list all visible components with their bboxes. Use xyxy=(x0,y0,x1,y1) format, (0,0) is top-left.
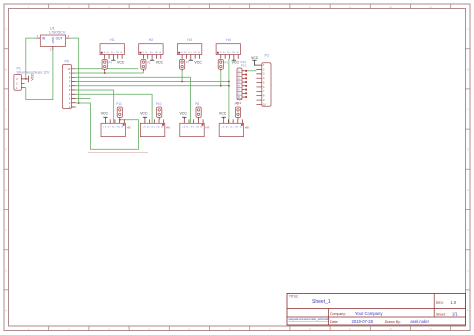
svg-text:+5 D- D+ ID G: +5 D- D+ ID G xyxy=(143,127,163,129)
svg-text:C: C xyxy=(5,108,7,112)
svg-text:+5 D- D+ ID G: +5 D- D+ ID G xyxy=(102,52,122,54)
wire U1 OUT down to P9 pin2 net xyxy=(70,38,79,103)
wire bus B5 from P9.6 xyxy=(76,85,229,87)
svg-text:P2: P2 xyxy=(224,60,228,64)
wire U1 GND to P1.1 xyxy=(26,50,53,99)
svg-text:H: H xyxy=(5,309,7,313)
node VCC junction at P1 pin 3 xyxy=(25,78,27,80)
wire P1.3 to U1 IN xyxy=(26,38,37,79)
P10 bottom stub xyxy=(158,117,160,119)
svg-text:L7805CV: L7805CV xyxy=(49,30,66,35)
wire H2 connector tap xyxy=(142,71,144,73)
svg-text:1.0: 1.0 xyxy=(451,300,457,305)
svg-text:Your Company: Your Company xyxy=(355,311,383,316)
svg-text:VCC: VCC xyxy=(232,61,240,65)
wire bus B8 from P9.3 xyxy=(76,98,91,100)
junction H4 tap xyxy=(220,85,222,87)
power symbol VCC above H6 xyxy=(143,117,147,119)
P7 bottom stub xyxy=(181,69,183,71)
svg-text:F: F xyxy=(467,228,469,232)
connector P7 (2-pin) under H3 xyxy=(180,60,190,70)
P13 pin 6 xyxy=(237,90,241,92)
junction P11 to P9.2 wire xyxy=(119,119,121,121)
power symbol VCC under H3 xyxy=(189,59,193,61)
svg-text:Drawn By:: Drawn By: xyxy=(385,320,401,324)
svg-text:Company:: Company: xyxy=(330,312,346,316)
header H4 xyxy=(216,38,240,54)
connector P4 (2-pin) under H1 xyxy=(102,60,112,70)
header H5 xyxy=(101,123,131,136)
P5 bottom stub xyxy=(142,69,144,71)
P4 bottom stub xyxy=(104,69,106,71)
svg-text:easyeda.com/axel.ruder_schemat: easyeda.com/axel.ruder_schematic xyxy=(289,317,331,321)
svg-text:TITLE:: TITLE: xyxy=(289,294,299,298)
junction H1 tap xyxy=(104,72,106,74)
wire ghost (faint) xyxy=(88,151,148,153)
wire H4 pin3 down to H8 xyxy=(228,59,230,124)
power symbol VCC under H4 xyxy=(232,59,236,61)
header H6 xyxy=(140,123,170,136)
P13 pin 8 xyxy=(237,98,241,100)
wire P9.2 to P11 (bottom loop) xyxy=(76,103,139,149)
U1 pin 2 GND stub xyxy=(52,46,54,50)
power symbol VCC (rotated) at P1 xyxy=(26,76,29,83)
H1 pin stubs xyxy=(105,55,122,59)
svg-text:Sheet_1: Sheet_1 xyxy=(312,299,331,305)
wire bus B3 from P9.8 to H7 xyxy=(76,77,191,123)
svg-text:B: B xyxy=(5,67,7,71)
svg-text:P10: P10 xyxy=(156,102,162,106)
P13 pin 1 xyxy=(237,72,241,74)
power symbol VCC above H5 xyxy=(103,117,107,119)
svg-text:P12: P12 xyxy=(241,64,247,68)
power symbol VCC above H8 xyxy=(222,117,226,119)
svg-text:axel.ruder: axel.ruder xyxy=(410,319,429,324)
title block xyxy=(287,293,466,325)
P8 bottom stub xyxy=(198,117,200,119)
svg-text:+5 D- D+ ID G: +5 D- D+ ID G xyxy=(180,52,200,54)
svg-text:VCC: VCC xyxy=(194,61,202,65)
svg-text:P9: P9 xyxy=(65,60,69,64)
voltage regulator U1 L7805CV xyxy=(40,25,66,46)
svg-text:2019-07-28: 2019-07-28 xyxy=(352,319,374,324)
svg-text:Date:: Date: xyxy=(330,320,338,324)
power symbol VCC under H2 xyxy=(150,59,154,61)
U1 pin 3 OUT stub xyxy=(66,37,70,39)
svg-text:GND: GND xyxy=(51,36,55,44)
header H1 xyxy=(100,38,124,54)
wire P13.1 to P3 xyxy=(247,70,256,72)
H6 pin stubs xyxy=(145,119,164,123)
H3 pin stubs xyxy=(182,55,199,59)
svg-text:F: F xyxy=(5,228,7,232)
svg-text:H1: H1 xyxy=(110,38,115,42)
svg-text:VCC: VCC xyxy=(140,112,148,116)
svg-text:B: B xyxy=(467,67,469,71)
connector P3 (10-pin) xyxy=(262,54,271,107)
svg-text:H: H xyxy=(467,309,469,313)
power symbol VCC at P3.1 xyxy=(252,60,256,65)
P13 pin 3 xyxy=(237,79,241,81)
svg-text:P8: P8 xyxy=(195,102,199,106)
wire H4 connector tap xyxy=(220,71,222,85)
P9 pin stubs xyxy=(72,69,76,107)
svg-text:+5 D- D+ ID G: +5 D- D+ ID G xyxy=(218,52,238,54)
connector P13 (8-pin with pads) xyxy=(237,60,247,100)
svg-text:H6: H6 xyxy=(166,125,170,129)
svg-text:+5 D- D+ ID G: +5 D- D+ ID G xyxy=(221,127,241,129)
svg-text:10: 10 xyxy=(389,327,393,331)
connector P11 (2-pin) above H5 xyxy=(116,102,122,117)
svg-text:OUT: OUT xyxy=(56,37,63,41)
svg-text:D: D xyxy=(5,148,7,152)
svg-text:VCC: VCC xyxy=(117,61,125,65)
header H7 xyxy=(180,123,210,136)
connector P9 (10-pin) xyxy=(62,60,71,109)
svg-text:G: G xyxy=(467,268,469,272)
svg-text:P4: P4 xyxy=(108,60,112,64)
svg-text:REV:: REV: xyxy=(436,301,444,305)
connector P1 Stromanschluss 12V xyxy=(14,66,50,90)
svg-text:VCC: VCC xyxy=(180,112,188,116)
P13 pin 4 xyxy=(237,83,241,85)
svg-text:P3: P3 xyxy=(265,54,269,58)
power symbol VCC under H1 xyxy=(111,59,115,61)
svg-text:VCC: VCC xyxy=(156,61,164,65)
svg-text:E: E xyxy=(467,188,469,192)
svg-text:VCC: VCC xyxy=(101,112,109,116)
wire bus B7 from P9.4 to H6 xyxy=(76,94,152,123)
wire H1 connector tap xyxy=(104,71,106,73)
wire bus B6 from P9.5 to H5 xyxy=(76,90,114,123)
H8 pin stubs xyxy=(224,119,243,123)
svg-text:11: 11 xyxy=(429,5,432,9)
svg-text:10: 10 xyxy=(389,5,393,9)
svg-text:A: A xyxy=(467,27,469,31)
H5 pin stubs xyxy=(106,119,125,123)
svg-text:H2: H2 xyxy=(149,38,154,42)
svg-text:1/1: 1/1 xyxy=(452,311,458,316)
P11 bottom stub xyxy=(119,117,121,119)
svg-text:+5 D- D+ ID G: +5 D- D+ ID G xyxy=(141,52,161,54)
connector P2 (2-pin) under H4 xyxy=(218,60,228,70)
svg-text:+5 D- D+ ID G: +5 D- D+ ID G xyxy=(103,127,123,129)
svg-text:VCC: VCC xyxy=(219,112,227,116)
svg-text:H7: H7 xyxy=(205,125,209,129)
P13 pin 5 xyxy=(237,87,241,89)
svg-text:P11: P11 xyxy=(116,102,122,106)
header H8 xyxy=(219,123,249,136)
power symbol VCC above H7 xyxy=(182,117,186,119)
H4 pin stubs xyxy=(221,55,238,59)
U1 pin 1 IN stub xyxy=(36,37,40,39)
H7 pin stubs xyxy=(184,119,203,123)
svg-text:P7: P7 xyxy=(186,60,190,64)
junction H3 tap xyxy=(181,81,183,83)
svg-text:A: A xyxy=(5,27,7,31)
H2 pin stubs xyxy=(143,55,160,59)
connector P6 (2-pin) above H8 xyxy=(235,102,241,117)
svg-text:VCC: VCC xyxy=(251,56,259,60)
junction at P9 pin2 net xyxy=(78,102,80,104)
P13 pin 2 xyxy=(237,75,241,77)
junction B4 x H4 wire xyxy=(228,81,230,83)
P6 bottom stub xyxy=(237,117,239,119)
junction B5 x H4 wire xyxy=(228,85,230,87)
wire H3 connector tap xyxy=(181,71,183,81)
svg-text:H3: H3 xyxy=(187,38,192,42)
svg-text:G: G xyxy=(5,268,7,272)
connector P10 (2-pin) above H6 xyxy=(156,102,162,117)
header H3 xyxy=(177,38,201,54)
svg-text:P12: P12 xyxy=(236,101,242,105)
svg-text:11: 11 xyxy=(429,327,432,331)
connector P8 (2-pin) above H7 xyxy=(195,102,201,117)
svg-text:E: E xyxy=(5,188,7,192)
svg-text:10: 10 xyxy=(67,67,70,71)
header H2 xyxy=(139,38,163,54)
svg-text:H8: H8 xyxy=(245,125,249,129)
svg-text:C: C xyxy=(467,108,469,112)
connector P5 (2-pin) under H2 xyxy=(141,60,151,70)
wire bus B2 from P9.9 to H2 connector xyxy=(76,72,144,74)
wire bus B4 from P9.7 xyxy=(76,81,229,83)
svg-text:H4: H4 xyxy=(226,38,231,42)
svg-text:VCC: VCC xyxy=(31,73,35,81)
wire bus B1 from P9.10 xyxy=(76,68,139,70)
svg-text:P5: P5 xyxy=(147,60,151,64)
svg-text:D: D xyxy=(467,148,469,152)
P13 pin 7 xyxy=(237,94,241,96)
P2 bottom stub xyxy=(220,69,222,71)
svg-text:H5: H5 xyxy=(127,125,131,129)
P1 pin stubs xyxy=(21,79,25,88)
P3 pin stubs xyxy=(256,65,261,104)
svg-text:Sheet:: Sheet: xyxy=(436,312,446,316)
svg-text:+5 D- D+ ID G: +5 D- D+ ID G xyxy=(182,127,202,129)
